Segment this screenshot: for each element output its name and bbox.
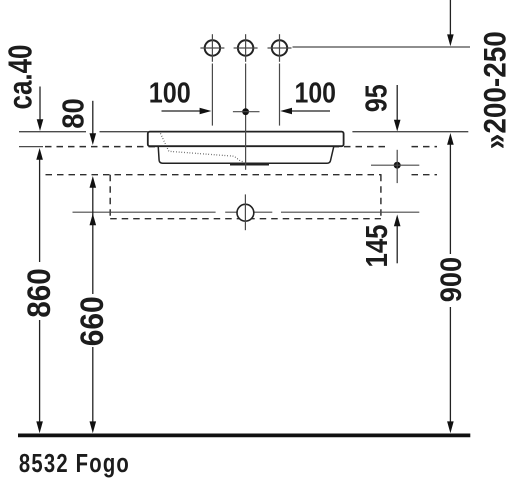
svg-text:100: 100 xyxy=(149,77,191,109)
drain circle xyxy=(237,194,254,230)
dimension 95: arrow xyxy=(394,85,401,132)
faucet hole 1 (crosshair circle) xyxy=(200,34,224,62)
basin body (lower trapezoid) xyxy=(158,146,334,163)
extension line below hole 2 (to basin) xyxy=(245,64,247,170)
dimension 860: line with arrows xyxy=(36,148,43,433)
wall level line A right segment xyxy=(352,131,468,133)
svg-text:900: 900 xyxy=(435,257,468,303)
svg-text:8532 Fogo: 8532 Fogo xyxy=(19,449,130,478)
dashed level line C (top of vanity level) xyxy=(46,174,438,176)
wall level line A left segment xyxy=(19,131,148,133)
extension line below hole 1 xyxy=(211,64,213,126)
svg-text:ca.40: ca.40 xyxy=(1,45,38,110)
faucet level line top right xyxy=(293,46,471,48)
dashed vanity rectangle xyxy=(110,175,381,219)
dimension 900: line with arrows xyxy=(447,133,454,433)
svg-text:80: 80 xyxy=(56,98,91,129)
drain level line xyxy=(73,211,420,213)
svg-text:145: 145 xyxy=(359,225,394,268)
svg-text:95: 95 xyxy=(358,84,393,112)
dimension 145: arrow xyxy=(394,215,401,264)
level line B solid left stub xyxy=(19,146,43,148)
svg-text:860: 860 xyxy=(21,268,57,318)
basin interior dotted contour xyxy=(161,134,244,163)
dimension 80: arrow xyxy=(90,101,97,145)
svg-text:660: 660 xyxy=(74,296,110,346)
basin drain flange xyxy=(230,163,269,165)
faucet hole 2 (crosshair circle) xyxy=(234,34,258,62)
floor line xyxy=(18,433,470,437)
reference dot at 95/145 junction xyxy=(371,150,419,183)
svg-text:100: 100 xyxy=(295,77,337,109)
svg-text:»200-250: »200-250 xyxy=(477,31,513,149)
dimension ca.40: arrow xyxy=(37,87,44,132)
dimension 100 left: arrow xyxy=(162,108,212,115)
dimension 660: line with arrows xyxy=(90,176,97,433)
faucet hole 3 (crosshair circle) xyxy=(268,34,292,62)
centre reference dot xyxy=(233,108,260,115)
dashed level line B (rim bottom level) xyxy=(45,146,437,148)
dimension 100 right: arrow xyxy=(280,108,330,115)
basin rim (top profile) xyxy=(148,132,344,147)
dimension »200-250: top arrow xyxy=(447,0,454,46)
extension line below hole 3 xyxy=(279,64,281,126)
